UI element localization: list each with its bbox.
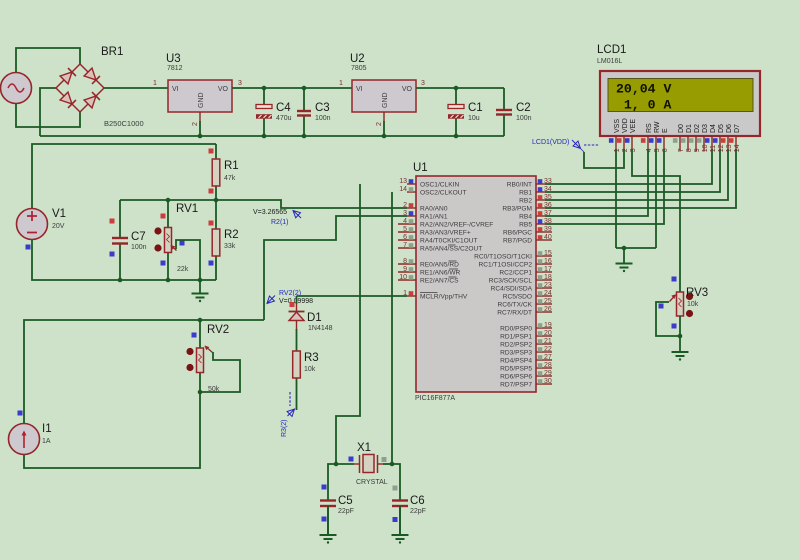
svg-text:470u: 470u: [276, 115, 292, 122]
svg-text:20V: 20V: [52, 223, 65, 230]
wire RV3 wiper to bottom: [656, 302, 680, 336]
U1 pin 18 RC3/SCK/SCL: [536, 279, 552, 281]
svg-text:5: 5: [654, 148, 661, 152]
svg-text:R2: R2: [224, 229, 239, 241]
svg-text:1: 1: [403, 290, 407, 297]
svg-text:19: 19: [544, 322, 552, 329]
svg-text:D6: D6: [726, 124, 733, 133]
svg-text:RD3/PSP3: RD3/PSP3: [500, 350, 532, 357]
svg-text:3: 3: [238, 80, 242, 87]
svg-text:VDD: VDD: [622, 118, 629, 133]
svg-text:22pF: 22pF: [338, 508, 354, 515]
svg-text:LCD1: LCD1: [597, 44, 626, 56]
svg-text:D7: D7: [734, 124, 741, 133]
svg-text:RV2: RV2: [207, 324, 229, 336]
probe R3(2): [289, 392, 291, 406]
svg-text:MCLR/Vpp/THV: MCLR/Vpp/THV: [420, 294, 468, 301]
svg-text:7: 7: [678, 148, 685, 152]
svg-text:8: 8: [686, 148, 693, 152]
wire I1 bottom loop: [24, 392, 200, 468]
wire D4 net row33: [545, 149, 712, 184]
svg-text:OSC2/CLKOUT: OSC2/CLKOUT: [420, 190, 467, 197]
svg-text:V1: V1: [52, 208, 66, 220]
LCD1 pin 1 VSS: [615, 136, 617, 150]
LCD1 pin 12 D5: [719, 136, 721, 150]
svg-text:R3: R3: [304, 352, 319, 364]
svg-text:22k: 22k: [177, 266, 189, 273]
svg-text:RE1/AN6/WR: RE1/AN6/WR: [420, 270, 461, 277]
svg-text:D0: D0: [678, 124, 685, 133]
svg-text:VI: VI: [172, 86, 179, 93]
svg-text:D4: D4: [710, 124, 717, 133]
svg-text:39: 39: [544, 226, 552, 233]
svg-text:RB6/PGC: RB6/PGC: [503, 230, 532, 237]
capacitor C2 100n: [503, 88, 505, 110]
svg-text:RC3/SCK/SCL: RC3/SCK/SCL: [489, 278, 533, 285]
svg-text:VI: VI: [356, 86, 363, 93]
U1 pin 15 RC0/T1OSO/T1CKI: [536, 255, 552, 257]
U1 pin 36 RB3/PGM: [536, 207, 545, 209]
svg-text:RE0/AN5/RD: RE0/AN5/RD: [420, 262, 459, 269]
LCD1 pin 10 D3: [703, 136, 705, 152]
svg-text:VO: VO: [218, 86, 229, 93]
svg-text:RB4: RB4: [519, 214, 532, 221]
U1 pin 33 RB0/INT: [536, 183, 545, 185]
svg-text:RA4/T0CKI/C1OUT: RA4/T0CKI/C1OUT: [420, 238, 478, 245]
resistor R3 10k: [296, 329, 298, 352]
svg-text:18: 18: [544, 274, 552, 281]
wire AC top to bridge top: [16, 48, 80, 73]
wire OSC2 net: [391, 192, 393, 464]
svg-text:U2: U2: [350, 53, 365, 65]
svg-text:B250C1000: B250C1000: [104, 119, 144, 128]
regulator U3 7812: [168, 80, 232, 112]
U1 pin 30 RD7/PSP7: [536, 383, 552, 385]
svg-text:2: 2: [622, 148, 629, 152]
U1 pin 22 RD3/PSP3: [536, 351, 552, 353]
svg-text:7805: 7805: [351, 65, 367, 72]
U1 pin 26 RC7/RX/DT: [536, 311, 552, 313]
U1 pin 23 RC4/SDI/SDA: [536, 287, 552, 289]
wire AC bottom to bridge bottom: [16, 104, 80, 128]
LCD1 pin 3 VEE: [631, 136, 633, 150]
U1 pin 2 RA0/AN0: [407, 207, 416, 209]
U1 pin 19 RD0/PSP0: [536, 327, 552, 329]
svg-text:C1: C1: [468, 102, 483, 114]
svg-text:11: 11: [710, 145, 717, 152]
LCD1 pin 6 E: [663, 136, 665, 150]
U3 pin2 gnd: [199, 112, 201, 122]
svg-text:13: 13: [726, 144, 733, 152]
junction dots divider: [166, 198, 171, 203]
svg-text:RD4/PSP4: RD4/PSP4: [500, 358, 532, 365]
svg-text:28: 28: [544, 362, 552, 369]
svg-text:3: 3: [421, 80, 425, 87]
U1 pin 10 RE2/AN7/CS: [398, 279, 416, 281]
dc source V1 20V: [17, 209, 48, 240]
potentiometer RV3 10k: [677, 292, 684, 316]
U1 pin 34 RB1: [536, 191, 545, 193]
svg-text:10: 10: [399, 274, 407, 281]
svg-text:RA2/AN2/VREF-/CVREF: RA2/AN2/VREF-/CVREF: [420, 222, 493, 229]
svg-text:RV1: RV1: [176, 203, 198, 215]
U1 pin 6 RA4/T0CKI/C1OUT: [398, 239, 416, 241]
svg-text:14: 14: [399, 186, 407, 193]
svg-text:1A: 1A: [42, 438, 51, 445]
svg-text:22pF: 22pF: [410, 508, 426, 515]
svg-text:U3: U3: [166, 53, 181, 65]
wire D6 net row35: [545, 149, 728, 200]
U1 pin 3 RA1/AN1: [407, 215, 416, 217]
regulator U2 7805: [352, 80, 416, 112]
wire RV2 wiper loop: [200, 352, 240, 392]
LCD1 pin 9 D2: [695, 136, 697, 152]
svg-text:RA5/AN4/SS/C2OUT: RA5/AN4/SS/C2OUT: [420, 246, 482, 253]
svg-text:9: 9: [403, 266, 407, 273]
svg-text:12: 12: [718, 144, 725, 152]
svg-text:RD7/PSP7: RD7/PSP7: [500, 382, 532, 389]
U1 pin 25 RC6/TX/CK: [536, 303, 552, 305]
svg-text:LCD1(VDD): LCD1(VDD): [532, 139, 569, 146]
svg-text:D5: D5: [718, 124, 725, 133]
svg-text:1: 1: [153, 80, 157, 87]
svg-text:LM016L: LM016L: [597, 58, 622, 65]
U1 pin 14 OSC2/CLKOUT: [407, 191, 416, 193]
svg-text:D3: D3: [702, 124, 709, 133]
U1 pin 27 RD4/PSP4: [536, 359, 552, 361]
svg-text:VEE: VEE: [630, 119, 637, 133]
resistor R1 47k: [215, 144, 217, 160]
svg-text:2: 2: [403, 202, 407, 209]
svg-text:29: 29: [544, 370, 552, 377]
U1 pin 1 MCLR/Vpp/THV: [407, 295, 416, 297]
svg-text:RA3/AN3/VREF+: RA3/AN3/VREF+: [420, 230, 471, 237]
U1 pin 16 RC1/T1OSI/CCP2: [536, 263, 552, 265]
svg-text:1, 0 A: 1, 0 A: [624, 98, 672, 113]
svg-text:C6: C6: [410, 495, 425, 507]
LCD1 pin 5 RW: [655, 136, 657, 150]
LCD1 pin 11 D4: [711, 136, 713, 150]
svg-text:C5: C5: [338, 495, 353, 507]
LCD1 pin 2 VDD: [623, 136, 625, 150]
svg-text:R3(2): R3(2): [281, 419, 288, 437]
svg-text:RC4/SDI/SDA: RC4/SDI/SDA: [491, 286, 533, 293]
svg-text:4: 4: [646, 148, 653, 152]
svg-text:RB0/INT: RB0/INT: [507, 182, 532, 189]
svg-text:100n: 100n: [131, 244, 147, 251]
LCD1 pin 7 D0: [679, 136, 681, 152]
wire VDD probe stub: [584, 149, 624, 168]
svg-text:C4: C4: [276, 102, 291, 114]
ground RV3: [679, 336, 681, 352]
svg-text:VO: VO: [402, 86, 413, 93]
svg-text:25: 25: [544, 298, 552, 305]
svg-text:10u: 10u: [468, 115, 480, 122]
svg-text:RD1/PSP1: RD1/PSP1: [500, 334, 532, 341]
svg-text:D2: D2: [694, 124, 701, 133]
svg-text:14: 14: [734, 144, 741, 152]
probe LCD1(VDD): [572, 140, 581, 149]
wire RW to gnd: [616, 149, 656, 248]
wire RS net row37: [545, 149, 648, 216]
LCD1 pin 8 D1: [687, 136, 689, 152]
svg-text:RE2/AN7/CS: RE2/AN7/CS: [420, 278, 459, 285]
U1 pin 29 RD6/PSP6: [536, 375, 552, 377]
potentiometer RV2 50k: [199, 320, 201, 348]
U1 pin 39 RB6/PGC: [536, 231, 552, 233]
svg-text:7: 7: [403, 242, 407, 249]
svg-text:RB5: RB5: [519, 222, 532, 229]
svg-text:RC2/CCP1: RC2/CCP1: [499, 270, 532, 277]
svg-text:C3: C3: [315, 102, 330, 114]
svg-text:1N4148: 1N4148: [308, 325, 333, 332]
svg-text:2: 2: [192, 122, 199, 126]
wire U2 VO rail: [416, 87, 504, 89]
crystal X1: [336, 463, 354, 465]
wire RA1 net: [264, 216, 407, 320]
svg-text:26: 26: [544, 306, 552, 313]
svg-text:R2(1): R2(1): [271, 219, 289, 226]
wire top rail RV1 section: [120, 199, 216, 201]
ground C6: [399, 506, 401, 535]
U1 pin 17 RC2/CCP1: [536, 271, 552, 273]
svg-text:30: 30: [544, 378, 552, 385]
ground rail wire: [40, 135, 504, 137]
svg-text:RB3/PGM: RB3/PGM: [502, 206, 532, 213]
wire bridge left to ground rail: [40, 88, 56, 136]
wire V1 bottom rail: [32, 240, 216, 280]
svg-text:10k: 10k: [687, 301, 699, 308]
capacitor C4 470u: [263, 88, 265, 105]
U1 pin 37 RB4: [536, 215, 545, 217]
capacitor C7 100n: [119, 200, 121, 238]
wire MCLR net: [297, 295, 408, 297]
svg-text:RD0/PSP0: RD0/PSP0: [500, 326, 532, 333]
svg-text:C7: C7: [131, 231, 146, 243]
wire OSC1 net: [336, 184, 360, 464]
U1 pin 28 RD5/PSP5: [536, 367, 552, 369]
svg-text:RC1/T1OSI/CCP2: RC1/T1OSI/CCP2: [479, 262, 533, 269]
svg-text:OSC1/CLKIN: OSC1/CLKIN: [420, 182, 459, 189]
svg-text:23: 23: [544, 282, 552, 289]
U1 pin 38 RB5: [536, 223, 545, 225]
ground LCD: [623, 248, 625, 264]
svg-text:RC7/RX/DT: RC7/RX/DT: [497, 310, 532, 317]
svg-text:1: 1: [614, 148, 621, 152]
wire U3 VO rail: [232, 87, 352, 89]
svg-text:13: 13: [399, 178, 407, 185]
svg-text:21: 21: [544, 338, 552, 345]
wire VSS to gnd: [615, 149, 617, 248]
svg-text:47k: 47k: [224, 175, 236, 182]
junction dots power rails: [262, 86, 267, 91]
svg-text:GND: GND: [198, 92, 205, 108]
ground C5: [327, 506, 329, 535]
U1 pin 24 RC5/SDO: [536, 295, 552, 297]
svg-text:22: 22: [544, 346, 552, 353]
svg-text:16: 16: [544, 258, 552, 265]
svg-text:R1: R1: [224, 160, 239, 172]
svg-text:I1: I1: [42, 423, 52, 435]
svg-text:20: 20: [544, 330, 552, 337]
U1 pin 9 RE1/AN6/WR: [398, 271, 416, 273]
U1 pin 7 RA5/AN4/SS/C2OUT: [398, 247, 416, 249]
U1 pin 5 RA3/AN3/VREF+: [398, 231, 416, 233]
svg-text:RV3: RV3: [686, 287, 708, 299]
svg-text:RS: RS: [646, 123, 653, 133]
U1 pin 40 RB7/PGD: [536, 239, 552, 241]
wire VEE to RV3: [632, 149, 680, 292]
svg-text:GND: GND: [382, 92, 389, 108]
svg-text:RA1/AN1: RA1/AN1: [420, 214, 448, 221]
svg-text:BR1: BR1: [101, 46, 123, 58]
svg-text:V=3.26565: V=3.26565: [253, 209, 287, 216]
diode D1 1N4148: [296, 296, 298, 304]
current source I1 1A: [9, 424, 40, 455]
microcontroller U1 PIC16F877A: [416, 176, 536, 392]
svg-text:D1: D1: [307, 312, 322, 324]
LCD1 pin 4 RS: [647, 136, 649, 150]
svg-text:20,04 V: 20,04 V: [616, 81, 671, 96]
U1 pin 35 RB2: [536, 199, 545, 201]
svg-text:U1: U1: [413, 162, 428, 174]
svg-text:10: 10: [702, 144, 709, 152]
svg-text:8: 8: [403, 258, 407, 265]
svg-text:9: 9: [694, 148, 701, 152]
wire D5 net row34: [545, 149, 720, 192]
svg-text:D1: D1: [686, 124, 693, 133]
bridge rectifier BR1: [56, 64, 104, 112]
svg-text:1: 1: [339, 80, 343, 87]
svg-text:RC6/TX/CK: RC6/TX/CK: [498, 302, 533, 309]
svg-text:RB7/PGD: RB7/PGD: [503, 238, 532, 245]
U1 pin 21 RD2/PSP2: [536, 343, 552, 345]
wire E net row38: [545, 149, 664, 224]
AC source V2: [1, 73, 32, 104]
svg-text:RB2: RB2: [519, 198, 532, 205]
svg-text:40: 40: [544, 234, 552, 241]
svg-text:24: 24: [544, 290, 552, 297]
svg-text:6: 6: [403, 234, 407, 241]
svg-text:5: 5: [403, 226, 407, 233]
svg-text:C2: C2: [516, 102, 531, 114]
U1 pin 4 RA2/AN2/VREF-/CVREF: [398, 223, 416, 225]
svg-text:27: 27: [544, 354, 552, 361]
svg-text:15: 15: [544, 250, 552, 257]
U1 pin 8 RE0/AN5/RD: [398, 263, 416, 265]
svg-text:RD2/PSP2: RD2/PSP2: [500, 342, 532, 349]
U2 pin2 gnd: [383, 112, 385, 122]
svg-text:E: E: [662, 128, 669, 133]
LCD1 pin 14 D7: [735, 136, 737, 150]
potentiometer RV1 22k: [167, 200, 169, 228]
capacitor C3 100n: [303, 88, 305, 111]
svg-text:7812: 7812: [167, 65, 183, 72]
svg-text:10k: 10k: [304, 366, 316, 373]
svg-text:RD6/PSP6: RD6/PSP6: [500, 374, 532, 381]
wire RV1 wiper: [176, 240, 200, 280]
svg-text:PIC16F877A: PIC16F877A: [415, 395, 455, 402]
svg-text:RC0/T1OSO/T1CKI: RC0/T1OSO/T1CKI: [474, 254, 532, 261]
svg-text:6: 6: [662, 148, 669, 152]
capacitor C6 22pF: [392, 464, 400, 500]
svg-text:VSS: VSS: [614, 119, 621, 133]
svg-text:4: 4: [403, 218, 407, 225]
LCD1 pin 13 D6: [727, 136, 729, 150]
U1 pin 20 RD1/PSP1: [536, 335, 552, 337]
ground divider: [199, 280, 201, 294]
U1 pin 13 OSC1/CLKIN: [407, 183, 416, 185]
wire bridge right to U3 VI: [104, 87, 168, 89]
wire RA0 net to U1 pin2: [216, 200, 407, 208]
svg-text:CRYSTAL: CRYSTAL: [356, 479, 388, 486]
svg-text:3: 3: [630, 148, 637, 152]
svg-text:RW: RW: [654, 121, 661, 133]
svg-text:33k: 33k: [224, 243, 236, 250]
probe RV2(2): [267, 296, 275, 304]
svg-text:RC5/SDO: RC5/SDO: [503, 294, 532, 301]
wire V1 top to R1: [32, 144, 216, 208]
capacitor C1 10u: [455, 88, 457, 105]
svg-text:RB1: RB1: [519, 190, 532, 197]
svg-text:100n: 100n: [516, 115, 532, 122]
capacitor C5 22pF: [328, 464, 336, 500]
wire D7 net row36: [545, 149, 736, 208]
LCD1 LM016L display: [600, 71, 760, 136]
wire I1 top rail: [24, 320, 264, 424]
resistor R2 33k: [215, 200, 217, 230]
svg-text:3: 3: [403, 210, 407, 217]
svg-text:X1: X1: [357, 442, 371, 454]
svg-text:17: 17: [544, 266, 552, 273]
svg-text:RD5/PSP5: RD5/PSP5: [500, 366, 532, 373]
svg-text:2: 2: [376, 122, 383, 126]
svg-text:RA0/AN0: RA0/AN0: [420, 206, 448, 213]
svg-text:100n: 100n: [315, 115, 331, 122]
